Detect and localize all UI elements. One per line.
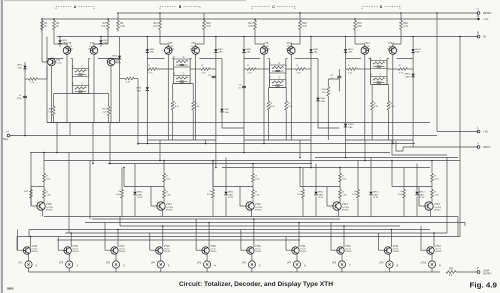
wire VT20 emitter [31, 187, 43, 217]
wire stage2 base stubs [147, 59, 216, 84]
wire lamp bus 3 [120, 225, 400, 227]
wire stage3 left column [243, 37, 245, 141]
resistor stage4 bias right [388, 85, 390, 102]
terminal B 0V [477, 35, 480, 38]
wire VT20 to base [31, 186, 44, 188]
node VT28 collector tap [162, 225, 164, 227]
svg-text:OC42: OC42 [56, 63, 62, 65]
svg-text:VT24: VT24 [434, 203, 440, 206]
svg-text:OA5: OA5 [218, 51, 223, 54]
svg-text:2N1308: 2N1308 [387, 48, 395, 50]
diode matrix MR14 [416, 164, 418, 192]
wire stage4 box links [371, 64, 387, 66]
svg-text:4.7k: 4.7k [403, 25, 408, 28]
transistor VT27 [111, 247, 118, 254]
svg-text:MR10: MR10 [137, 192, 143, 194]
wire lamp bus 1 [92, 218, 340, 220]
wire VT26 emitter [68, 254, 70, 261]
svg-text:A: A [74, 5, 77, 9]
svg-text:2N281: 2N281 [32, 251, 39, 253]
svg-text:2N1308: 2N1308 [363, 48, 371, 50]
svg-text:4.7k: 4.7k [248, 25, 253, 28]
node VT27 collector tap [117, 229, 119, 231]
node VT33 collector tap [391, 229, 393, 231]
diode matrix MR13 [370, 158, 372, 192]
wire VT20 feed column [43, 153, 45, 174]
memory network R/C box lower stage1 [72, 86, 89, 94]
wire RESET rail [119, 12, 478, 14]
svg-text:H: H [6, 130, 8, 134]
wire bus row 6 [222, 167, 430, 169]
terminal A RESET [477, 12, 480, 15]
wire lamp 9 to rail [389, 268, 391, 272]
wire VT33 emitter [389, 254, 391, 261]
wire stage4 right column [412, 37, 414, 141]
wire VT26 collector feed [70, 233, 72, 247]
svg-text:LP10: LP10 [421, 263, 427, 265]
wire VT24 mid [431, 182, 433, 190]
wire VT21 emitter [151, 187, 163, 217]
transistor VT33 [384, 247, 391, 254]
wire stage2 collector jogs [160, 32, 204, 47]
resistor R11 [153, 13, 161, 32]
wire VT30 emitter [251, 254, 253, 261]
wire VT25 emitter [28, 254, 30, 261]
svg-text:12.6V: 12.6V [419, 197, 425, 199]
svg-text:LP6: LP6 [242, 263, 247, 265]
svg-text:2N706: 2N706 [434, 209, 441, 211]
wire VT27 collector feed [117, 230, 119, 248]
wire VT32 collector feed [343, 226, 345, 247]
svg-text:OA5: OA5 [246, 51, 251, 54]
resistor stage4 left coupling [348, 68, 357, 71]
svg-text:4.7k: 4.7k [153, 25, 158, 28]
terminal P lamp supply [477, 271, 480, 274]
svg-text:2N706: 2N706 [342, 209, 349, 211]
wire VT28 base feed [150, 233, 156, 250]
svg-text:2N706: 2N706 [255, 209, 262, 211]
svg-text:M: M [477, 14, 479, 18]
wire stage2 box links [174, 62, 190, 64]
wire interstage S3-S4 [318, 59, 339, 129]
node VT25 collector tap [30, 236, 32, 238]
resistor VT21 lower [163, 190, 166, 199]
lamp LP6 [248, 261, 255, 268]
node VT29 collector tap [208, 222, 210, 224]
wire VT29 emitter [206, 254, 208, 261]
transistor VT20 [43, 198, 45, 203]
svg-text:VT13: VT13 [364, 42, 370, 45]
wire VT31 collector feed [298, 223, 300, 248]
svg-text:50µs: 50µs [3, 138, 9, 141]
wire VT24 to base [391, 160, 432, 187]
memory network R/C box upper stage2 [174, 59, 191, 67]
svg-text:R50: R50 [449, 269, 454, 271]
diode MR7 [214, 49, 217, 52]
bracket group A [56, 7, 94, 10]
svg-text:0V: 0V [483, 35, 486, 39]
wire VT29 base feed [196, 219, 202, 250]
svg-text:2N1308: 2N1308 [88, 48, 96, 50]
wire lamp 6 to rail [251, 268, 253, 272]
svg-text:LP2: LP2 [59, 263, 64, 265]
transistor VT14 [389, 47, 397, 55]
wire lamp 7 to rail [296, 268, 298, 272]
bracket group D [362, 7, 400, 10]
svg-text:OA5: OA5 [348, 51, 353, 54]
transistor VT13 [361, 47, 369, 55]
memory network R/C box upper stage4 [371, 61, 388, 69]
resistor matrix 1 [121, 168, 123, 190]
wire stage1 right column [119, 37, 121, 123]
wire stage1 box links [72, 72, 88, 74]
wire stage1 collector jogs [54, 32, 108, 47]
svg-text:MR11: MR11 [228, 192, 234, 194]
wire stage4 outputs down [346, 140, 414, 161]
transistor VT26 [64, 247, 71, 254]
svg-text:2N1308: 2N1308 [262, 48, 270, 50]
svg-text:2N281: 2N281 [345, 251, 352, 253]
wire bus row 1 [138, 143, 415, 145]
wire VT28 collector feed [162, 226, 164, 247]
wire lamp 10 to rail [431, 268, 433, 272]
node VT21 feed [163, 160, 165, 162]
diode MR2 top [59, 37, 61, 41]
wire L line [437, 131, 478, 133]
svg-text:OA5: OA5 [150, 51, 155, 54]
svg-text:4.7k: 4.7k [302, 25, 307, 28]
wire VT27 emitter [115, 254, 117, 261]
svg-text:OA5: OA5 [113, 57, 118, 60]
svg-text:OA5: OA5 [348, 126, 353, 129]
resistor VT22 lower [252, 190, 255, 199]
svg-text:B: B [477, 31, 479, 35]
wire +6V supply rail [42, 18, 478, 20]
svg-text:2N281: 2N281 [300, 251, 307, 253]
svg-text:LAMP: LAMP [483, 270, 490, 273]
svg-text:5805: 5805 [7, 287, 14, 291]
wire to lamp supply terminal [456, 271, 477, 273]
wire VT23 to base [299, 167, 340, 187]
wire stage1 base stubs [47, 59, 120, 94]
svg-text:2N281: 2N281 [119, 251, 126, 253]
resistor R50 lamp supply [446, 271, 456, 274]
resistor stage2 bias left [172, 84, 174, 102]
wire VT30 base feed [241, 230, 247, 251]
resistor VT20 upper [43, 174, 46, 183]
page edge shading [0, 0, 1, 293]
svg-text:VT21: VT21 [166, 203, 172, 206]
svg-text:100: 100 [357, 25, 362, 28]
svg-text:2N281: 2N281 [393, 251, 400, 253]
bracket group B [160, 7, 200, 10]
transistor VT25 [23, 247, 30, 254]
lamp LP10 [428, 261, 435, 268]
wire stage1 bias tie [54, 93, 109, 95]
wire stage4 collector jogs [355, 32, 401, 47]
wire stage2 bias tie [173, 83, 194, 85]
resistor VT21 upper [163, 174, 166, 183]
wire lamp 1 to rail [28, 268, 30, 272]
resistor matrix 5 [403, 168, 405, 190]
node VT32 collector tap [343, 225, 345, 227]
resistor stage3 left coupling [247, 68, 256, 71]
transistor VT6 [192, 47, 200, 55]
wire stage3 collector jogs [255, 32, 300, 47]
wire interstage link [47, 122, 430, 124]
wire VT21 feed column [163, 161, 165, 174]
resistor R8 coupling [125, 77, 134, 80]
resistor VT20 lower [43, 190, 46, 199]
diode MR1 [23, 66, 26, 69]
wire VT31 emitter [296, 254, 298, 261]
svg-text:VT14: VT14 [388, 42, 394, 45]
diode MR6 lower [146, 87, 149, 90]
resistor VT23 upper [339, 174, 342, 183]
svg-text:SUPPLY: SUPPLY [483, 274, 492, 276]
wire VT27 base feed [105, 223, 111, 251]
resistor VT23 lower [339, 190, 342, 199]
wire VT24 feed column [431, 161, 433, 174]
wire interstage S2-S3 [222, 59, 244, 129]
svg-text:VT20: VT20 [46, 203, 52, 206]
wire lamp bus verticals right [447, 36, 465, 237]
wire lamp bus 6 [17, 236, 460, 238]
wire stage3 outputs down [244, 140, 311, 168]
diode MR6 [146, 49, 149, 52]
node VT20 feed [43, 152, 45, 154]
resistor R31 [354, 19, 363, 32]
svg-text:2N706: 2N706 [46, 209, 53, 211]
svg-text:+ 6V: + 6V [483, 17, 489, 21]
wire VT33 collector feed [391, 230, 393, 248]
svg-text:470p: 470p [17, 98, 23, 100]
wire lamp 5 to rail [206, 268, 208, 272]
resistor stage4 bias left [371, 85, 373, 102]
transistor VT31 [292, 247, 299, 254]
svg-text:2N281: 2N281 [210, 251, 217, 253]
resistor R38 [327, 79, 329, 87]
resistor matrix 4 [357, 161, 359, 190]
memory network R/C box lower stage2 [174, 76, 191, 84]
svg-text:MR14: MR14 [419, 192, 425, 194]
svg-text:2N281: 2N281 [255, 251, 262, 253]
diode MR7 [220, 109, 223, 112]
wire VT22 emitter [240, 187, 252, 217]
diode MR16 [411, 74, 414, 77]
transistor VT29 [202, 247, 209, 254]
diode matrix MR12 [315, 164, 317, 192]
wire VT30 collector feed [253, 219, 255, 247]
transistor VT32 [337, 247, 344, 254]
wire stage4 bottom [346, 139, 414, 141]
terminal L [477, 130, 480, 133]
node VT31 collector tap [298, 222, 300, 224]
wire stage1 emitter drops [67, 54, 94, 122]
wire stage2 outputs down [147, 140, 216, 168]
capacitor C1 [23, 95, 27, 97]
capacitor C6 [242, 85, 246, 87]
resistor stage1 bias left [53, 94, 55, 107]
transistor VT21 [163, 198, 165, 203]
node VT24 feed [431, 160, 433, 162]
svg-text:OA47: OA47 [318, 193, 324, 196]
transistor VT5 [165, 47, 173, 55]
wire bus row 3 [315, 157, 458, 159]
wire VT1 links [42, 19, 120, 123]
diode matrix MR11 [225, 158, 227, 192]
svg-text:+ 6V: + 6V [483, 131, 488, 134]
terminal J INPUT [477, 146, 480, 149]
wire stage3 emitter drops [264, 54, 291, 140]
resistor matrix 2 [212, 161, 214, 190]
wire lamp bus verticals left [17, 153, 120, 251]
wire VT23 mid [339, 182, 341, 190]
svg-text:LP1: LP1 [18, 263, 23, 265]
wire stage3 base stubs [244, 59, 311, 88]
svg-text:LP8: LP8 [332, 263, 337, 265]
svg-text:A: A [477, 7, 479, 11]
svg-text:D: D [380, 5, 383, 9]
wire lamp 2 to rail [68, 268, 70, 272]
wire J input line [403, 146, 478, 148]
diode MR3 top [100, 37, 102, 41]
node VT34 collector tap [433, 232, 435, 234]
wire VT25 base feed [18, 230, 24, 251]
diode MR15 lower [344, 124, 347, 127]
wire stage3 bias tie [269, 87, 287, 89]
resistor R21 [248, 19, 256, 32]
transistor VT34 [427, 247, 434, 254]
svg-text:12.6V: 12.6V [137, 197, 143, 199]
wire VT32 emitter [341, 254, 343, 261]
svg-text:OA5: OA5 [18, 66, 23, 69]
wire lamp 8 to rail [341, 268, 343, 272]
svg-text:MR12: MR12 [318, 192, 324, 194]
svg-text:4.7k: 4.7k [101, 25, 106, 28]
svg-text:Circuit: Totalizer, Decoder, a: Circuit: Totalizer, Decoder, and Display… [179, 282, 333, 288]
wire stage4 left column [345, 37, 347, 141]
wire stage2 bottom [147, 139, 216, 141]
wire VT25 collector feed [30, 237, 32, 248]
memory network R/C box upper stage1 [72, 69, 89, 77]
wire bus row 5 [108, 163, 312, 165]
wire lamp bus 2 [85, 222, 465, 224]
svg-text:LP4: LP4 [151, 263, 156, 265]
wire VT28 emitter [160, 254, 162, 261]
memory network R/C box lower stage3 [269, 80, 286, 88]
svg-text:2N1308: 2N1308 [190, 48, 198, 50]
svg-text:12.6V: 12.6V [318, 197, 324, 199]
wire bus row 4 [44, 160, 460, 162]
svg-text:MR16: MR16 [405, 74, 412, 76]
wire VT21 to base [123, 167, 164, 187]
diode MR9 [309, 49, 312, 52]
wire stage2 emitter drops [168, 54, 195, 140]
svg-text:12.6V: 12.6V [373, 197, 379, 199]
wire VT22 mid [252, 182, 254, 190]
resistor stage2 right coupling [201, 68, 210, 71]
svg-text:VT23: VT23 [342, 203, 348, 206]
resistor stage2 left coupling [148, 68, 157, 71]
svg-text:VT3: VT3 [90, 42, 95, 45]
wire R5 links [25, 66, 47, 79]
svg-text:2N1308: 2N1308 [167, 48, 175, 50]
svg-text:2N1308: 2N1308 [65, 48, 73, 50]
transistor VT2 [63, 47, 71, 55]
svg-text:INPUT: INPUT [483, 145, 491, 149]
wire VT31 base feed [286, 237, 292, 251]
lamp LP1 [25, 261, 32, 268]
lamp LP4 [157, 261, 164, 268]
resistor stage4 right coupling [398, 68, 407, 71]
wire lamp 3 to rail [115, 268, 117, 272]
resistor stage3 right coupling [296, 68, 305, 71]
wire VT20 mid [43, 182, 45, 190]
wire VT22 to base [212, 160, 253, 187]
transistor VT24 [431, 198, 433, 203]
svg-text:4.7k: 4.7k [120, 25, 125, 28]
lamp LP7 [293, 261, 300, 268]
svg-text:OA47: OA47 [373, 193, 379, 196]
transistor VT30 [247, 247, 254, 254]
svg-text:P: P [477, 266, 479, 270]
svg-text:MR7: MR7 [225, 109, 230, 111]
resistor R2 [53, 19, 60, 32]
svg-text:LP7: LP7 [287, 263, 292, 265]
wire VT34 emitter [431, 254, 433, 261]
wire VT34 collector feed [433, 233, 435, 247]
resistor VT22 upper [252, 174, 255, 183]
svg-text:VT9: VT9 [264, 42, 269, 45]
wire stage1 outputs down [57, 123, 110, 164]
svg-text:VT2: VT2 [67, 42, 72, 45]
wire VT33 base feed [379, 233, 385, 250]
svg-text:OC42: OC42 [116, 63, 122, 65]
memory network R/C box upper stage3 [269, 65, 286, 73]
svg-text:LP5: LP5 [197, 263, 202, 265]
resistor VT24 upper [431, 174, 434, 183]
svg-text:VT22: VT22 [255, 203, 261, 206]
terminal H input [7, 134, 10, 137]
diode MR4 [118, 56, 121, 59]
diode MR9 [316, 98, 319, 101]
resistor R1 [41, 19, 48, 32]
wire VT32 base feed [331, 223, 337, 251]
svg-text:B: B [179, 5, 182, 9]
lamp LP8 [338, 261, 345, 268]
svg-text:RESET: RESET [483, 11, 492, 15]
svg-text:OA5: OA5 [62, 42, 67, 45]
node input junction [24, 135, 26, 137]
diode matrix MR10 [134, 164, 136, 192]
svg-text:OA5: OA5 [321, 100, 326, 103]
wire input line [10, 135, 437, 137]
wire stage4 bias tie [372, 84, 388, 86]
svg-text:OA47: OA47 [228, 193, 234, 196]
wire stage1 left column [46, 37, 48, 123]
transistor VT22 [252, 198, 254, 203]
wire stage3 bottom [244, 139, 311, 141]
terminal M +6V [477, 18, 479, 20]
resistor matrix 3 [302, 168, 304, 190]
transistor VT23 [339, 198, 341, 203]
svg-text:MR6: MR6 [136, 88, 141, 90]
resistor R3 [101, 19, 109, 32]
svg-text:LP3: LP3 [106, 263, 111, 265]
wire VT24 emitter [419, 187, 431, 217]
bracket group C [252, 7, 295, 10]
